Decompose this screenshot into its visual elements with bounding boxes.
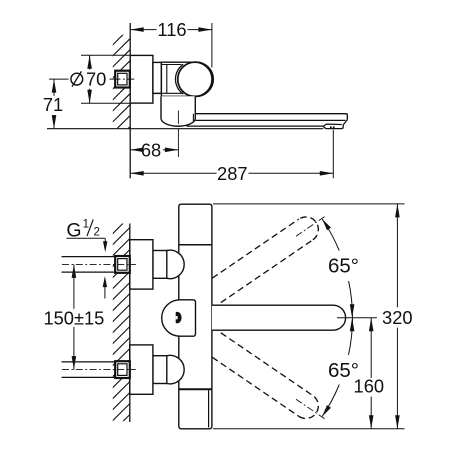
inlet 2 union nut: [153, 356, 167, 384]
dimension 71 line: [53, 79, 55, 96]
swung spout centerline (up): [296, 216, 326, 236]
dimension 287 line: [130, 172, 216, 174]
spout tip center marks: [350, 304, 355, 318]
svg-text:1: 1: [83, 219, 89, 231]
knob back edge arc: [175, 64, 183, 94]
body step ring: [153, 62, 162, 93]
inlet 1 centerline: [62, 263, 136, 265]
mounting surface baseline (upper view): [47, 128, 323, 130]
dimension 320 extension line (top): [213, 203, 405, 205]
inlet 1 union nut: [153, 251, 167, 279]
dimension text O70: [71, 73, 83, 85]
spout pivot housing (side view): [161, 96, 195, 126]
sensor boss (plan view): [162, 300, 196, 336]
wall line (lower view): [129, 224, 131, 423]
body step line (upper): [179, 244, 212, 246]
cartridge housing: [161, 62, 213, 96]
supply pipe stub (inlet 1): [62, 256, 116, 258]
body step line (lower): [179, 388, 212, 390]
aerator slots: [330, 126, 332, 128]
dashed swung spout (down 65): [212, 327, 313, 396]
dashed spout tip cap (up): [299, 217, 319, 240]
spout top edge (side view): [195, 114, 347, 120]
pivot axis extension line (for 68): [177, 111, 179, 124]
inlet 2 dome: [167, 355, 184, 384]
inlet 1 escutcheon: [130, 240, 153, 289]
svg-text:2: 2: [93, 227, 99, 239]
svg-text:320: 320: [382, 307, 413, 328]
inlet 1 bolt: [115, 256, 130, 273]
cartridge inner lines: [166, 64, 168, 93]
dashed swung spout (up 65): [212, 240, 313, 309]
inlet centerline (upper view): [49, 78, 69, 80]
inlet 2 centerline: [62, 369, 136, 371]
svg-text:116: 116: [157, 19, 186, 40]
straight spout (plan view): [212, 305, 346, 330]
control knob (top circle): [178, 62, 212, 96]
inlet 2 escutcheon: [130, 345, 153, 394]
G 1/2 leader line and arrows: [67, 237, 106, 239]
dimension O70 extension lines: [81, 54, 130, 56]
dimension 68 line: [130, 149, 139, 151]
dimension 116 extension line: [211, 23, 213, 68]
svg-text:287: 287: [217, 163, 248, 184]
faucet body (plan view): [179, 204, 212, 429]
dimension O70 line: [89, 55, 91, 69]
dimension 116 line: [130, 29, 156, 31]
spout bottom line: [187, 125, 324, 127]
svg-text:68: 68: [141, 139, 161, 160]
dimension 287 extension line (spout tip): [332, 130, 334, 179]
wall line (upper view): [129, 23, 131, 178]
spout root edge line: [192, 114, 194, 122]
escutcheon flange (side view): [130, 55, 153, 103]
swung spout centerline (down): [296, 399, 326, 419]
inlet 1 dome: [167, 250, 184, 279]
65-degree swivel arc: [322, 219, 339, 251]
supply pipe stub (inlet 2): [62, 361, 116, 363]
inlet bolt behind wall (side view): [115, 71, 130, 88]
svg-text:150±15: 150±15: [43, 307, 104, 328]
spout mid line: [195, 119, 345, 121]
dimension 320 line: [396, 204, 398, 307]
spout tip bevel and aerator: [323, 120, 347, 129]
svg-text:71: 71: [43, 94, 63, 115]
dimension 160 line: [370, 318, 372, 378]
spout center extension line: [337, 317, 377, 319]
dashed spout tip cap (down): [299, 396, 319, 419]
arc arrowheads: [322, 219, 331, 230]
svg-text:70: 70: [86, 69, 106, 90]
svg-text:65°: 65°: [328, 255, 359, 278]
sensor window mark: [176, 312, 181, 322]
dimension 150+-15 line: [73, 264, 75, 308]
inlet 2 bolt: [115, 361, 130, 378]
svg-text:160: 160: [354, 376, 385, 397]
body inner line (bottom section): [208, 390, 210, 427]
bottom baseline extension (lower view): [213, 428, 405, 430]
